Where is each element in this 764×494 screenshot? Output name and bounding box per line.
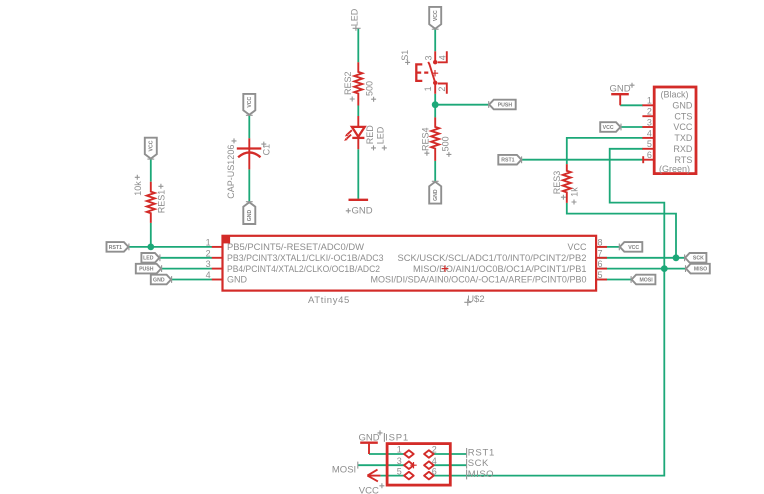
svg-text:ATtiny45: ATtiny45	[308, 295, 350, 306]
svg-text:VCC: VCC	[149, 140, 155, 151]
resistor RES3	[563, 164, 571, 203]
tag VCC at connector pin3	[600, 122, 621, 132]
svg-text:VCC: VCC	[673, 122, 693, 132]
IC pin 5 stub	[596, 279, 608, 281]
ISP pin 3	[404, 461, 414, 469]
connector pin 1 stub	[642, 104, 654, 106]
wire ISP pin2 to RST1 label	[434, 453, 467, 455]
svg-text:3: 3	[647, 117, 652, 127]
svg-text:500: 500	[365, 81, 375, 96]
tag GND at IC pin4	[151, 275, 172, 285]
wire LED label to RES2	[357, 28, 359, 62]
wire VCC arrow to ISP pin5	[380, 475, 404, 477]
svg-text:1k: 1k	[569, 187, 579, 197]
svg-text:7: 7	[598, 248, 603, 258]
svg-text:6: 6	[647, 150, 652, 160]
svg-text:2: 2	[432, 444, 437, 454]
tick at connector pin6	[642, 156, 644, 163]
svg-text:RST1: RST1	[468, 447, 495, 458]
wire VCC to C1	[248, 115, 250, 139]
svg-text:GND: GND	[359, 432, 380, 443]
supply VCC at ISP pin5	[359, 470, 385, 494]
svg-text:1: 1	[206, 237, 211, 247]
wire net RXD: connector pin5 down to MISO line and ISP pin6	[434, 149, 664, 476]
wire net SCK: IC pin7 to SCK tag	[599, 257, 685, 259]
svg-text:PB3/PCINT3/XTAL1/CLKI/-OC1B/AD: PB3/PCINT3/XTAL1/CLKI/-OC1B/ADC3	[227, 253, 384, 263]
svg-text:MOSI: MOSI	[332, 465, 356, 476]
svg-text:LED: LED	[375, 126, 385, 144]
svg-text:3: 3	[206, 259, 211, 269]
connector pin 2 stub	[642, 115, 654, 117]
wire PUSH tag to IC pin3	[161, 268, 212, 270]
supply VCC above C1	[243, 94, 255, 115]
svg-text:CTS: CTS	[674, 111, 692, 121]
wire ISP GND to ISP pin1	[369, 453, 404, 455]
wire S1 pin1 to push node	[434, 94, 436, 118]
svg-text:MISO: MISO	[468, 469, 494, 480]
IC pin 8 stub	[596, 246, 608, 248]
svg-text:LED: LED	[143, 256, 154, 262]
svg-text:S1: S1	[400, 50, 410, 61]
junction push node	[432, 101, 439, 108]
wire net RTS: RST1 tag to connector pin6	[521, 159, 643, 161]
wire IC pin5 to MOSI tag	[599, 279, 632, 281]
switch S1	[416, 51, 447, 94]
svg-text:VCC: VCC	[567, 242, 587, 252]
IC pin 4 stub	[212, 279, 223, 281]
svg-text:4: 4	[647, 128, 652, 138]
svg-text:RES3: RES3	[552, 171, 562, 195]
capacitor C1	[237, 138, 261, 169]
svg-text:SCK: SCK	[693, 256, 704, 262]
svg-text:ISP1: ISP1	[385, 432, 409, 443]
svg-text:GND: GND	[153, 277, 165, 283]
connector ISP1	[387, 444, 450, 486]
IC origin cross	[442, 265, 449, 272]
wire GND symbol to connector pin1	[620, 104, 643, 106]
supply VCC above RES1	[145, 138, 157, 159]
svg-text:500: 500	[440, 136, 450, 151]
svg-text:GND: GND	[610, 83, 631, 94]
wire VCC to S1 pin3	[434, 29, 436, 52]
wire RES1 to reset node	[150, 223, 152, 247]
connector pin 5 stub	[642, 148, 654, 150]
tag VCC at IC pin8	[619, 242, 642, 252]
wire IC pin8 to VCC tag	[599, 246, 620, 248]
connector pin 4 stub	[642, 137, 654, 139]
svg-text:RES4: RES4	[421, 127, 431, 151]
tag MOSI at IC pin5	[631, 275, 655, 285]
supply GND above connector	[610, 83, 635, 106]
supply VCC above S1	[429, 7, 441, 29]
svg-text:5: 5	[647, 139, 652, 149]
svg-text:6: 6	[432, 467, 437, 477]
ISP pin 1	[404, 450, 414, 458]
IC pin 2 stub	[212, 257, 223, 259]
wire VCC to RES1	[150, 158, 152, 181]
supply GND below LED1	[346, 200, 373, 217]
ISP pin 4	[424, 461, 434, 469]
svg-text:10k: 10k	[133, 181, 143, 196]
svg-text:4: 4	[437, 55, 447, 60]
wire RST1 tag to IC pin1	[128, 246, 212, 248]
connector pin 6 stub	[642, 159, 654, 161]
wire MOSI label to ISP pin3	[358, 464, 404, 466]
svg-text:RED: RED	[365, 125, 375, 145]
svg-text:VCC: VCC	[628, 245, 639, 251]
svg-text:VCC: VCC	[359, 486, 379, 494]
svg-text:3: 3	[397, 456, 402, 466]
junction reset node	[147, 244, 154, 251]
svg-text:5: 5	[397, 467, 402, 477]
ISP pin 2	[424, 450, 434, 458]
tag GND below RES4	[429, 181, 441, 203]
ISP pin 6	[424, 472, 434, 480]
wire net MISO: IC pin6 to MISO tag	[599, 268, 686, 270]
svg-text:4: 4	[206, 270, 211, 280]
IC pin 3 stub	[212, 268, 223, 270]
wire GND tag to IC pin4	[171, 279, 212, 281]
tag GND below C1	[243, 202, 255, 224]
tag LED at IC pin2	[141, 253, 160, 263]
svg-text:U$2: U$2	[467, 294, 484, 305]
ISP origin cross	[410, 462, 416, 468]
svg-text:PB4/PCINT4/XTAL2/CLKO/OC1B/ADC: PB4/PCINT4/XTAL2/CLKO/OC1B/ADC2	[227, 264, 380, 274]
svg-text:SCK/USCK/SCL/ADC1/T0/INT0/PCIN: SCK/USCK/SCL/ADC1/T0/INT0/PCINT2/PB2	[398, 253, 587, 263]
IC pin 1 stub	[212, 246, 223, 248]
svg-text:GND: GND	[227, 275, 248, 285]
svg-text:RES1: RES1	[156, 190, 166, 214]
svg-text:4: 4	[432, 456, 437, 466]
svg-text:6: 6	[598, 259, 603, 269]
junction TXD-SCK	[673, 254, 680, 261]
svg-text:2: 2	[647, 107, 652, 117]
svg-text:RES2: RES2	[343, 71, 353, 95]
svg-text:GND: GND	[672, 101, 693, 111]
wire RES2 to LED1	[357, 106, 359, 117]
resistor RES2	[354, 62, 362, 105]
wire C1 to GND tag	[248, 169, 250, 202]
svg-text:RST1: RST1	[109, 245, 122, 251]
svg-text:MISO/DO/AIN1/OC0B/OC1A/PCINT1/: MISO/DO/AIN1/OC0B/OC1A/PCINT1/PB1	[413, 264, 587, 274]
supply GND above ISP	[359, 430, 383, 454]
wire push node to PUSH tag	[435, 104, 489, 106]
wire VCC tag to connector pin3	[621, 126, 644, 128]
svg-text:RXD: RXD	[673, 144, 693, 154]
junction RXD-MISO	[661, 265, 668, 272]
wire ISP pin4 to SCK label	[434, 464, 467, 466]
svg-text:VCC: VCC	[247, 96, 253, 107]
IC pin 7 stub	[596, 257, 608, 259]
svg-text:TXD: TXD	[674, 133, 693, 143]
svg-text:1: 1	[397, 444, 402, 454]
connector pin 3 stub	[642, 126, 654, 128]
svg-text:C1: C1	[262, 144, 272, 156]
svg-text:PUSH: PUSH	[498, 102, 513, 108]
resistor RES4	[431, 117, 439, 160]
svg-text:2: 2	[437, 87, 447, 92]
diode LED1	[344, 116, 365, 149]
svg-text:VCC: VCC	[603, 125, 614, 131]
wire RES4 to GND tag	[434, 161, 436, 182]
connector (Black)/(Green)	[642, 87, 696, 174]
svg-text:1: 1	[423, 86, 433, 91]
wire LED1 to GND symbol	[357, 149, 359, 199]
svg-text:CAP-US1206: CAP-US1206	[226, 145, 236, 199]
tag MISO at IC pin6	[686, 264, 710, 274]
wire LED tag to IC pin2	[159, 257, 212, 259]
tag RST1 near RES3	[498, 155, 521, 165]
svg-text:GND: GND	[247, 209, 253, 221]
tag SCK at IC pin7	[685, 253, 707, 263]
svg-text:2: 2	[206, 248, 211, 258]
tag RST1 at IC pin1	[107, 242, 129, 252]
ISP pin 5	[404, 472, 414, 480]
svg-text:LED: LED	[350, 8, 360, 26]
svg-text:MOSI/DI/SDA/AIN0/OC0A/-OC1A/AR: MOSI/DI/SDA/AIN0/OC0A/-OC1A/AREF/PCINT0/…	[371, 275, 587, 285]
svg-text:SCK: SCK	[468, 458, 489, 469]
svg-text:MISO: MISO	[694, 267, 707, 273]
tag PUSH right of S1	[489, 100, 516, 110]
svg-text:(Black): (Black)	[660, 89, 688, 99]
wire net TXD: RES3 to SCK junction	[567, 203, 676, 258]
svg-text:VCC: VCC	[433, 10, 439, 21]
svg-text:8: 8	[598, 237, 603, 247]
svg-text:GND: GND	[352, 205, 373, 216]
tag PUSH at IC pin3	[136, 264, 162, 274]
svg-text:MOSI: MOSI	[639, 277, 653, 283]
IC pin 6 stub	[596, 268, 608, 270]
svg-text:PB5/PCINT5/-RESET/ADC0/DW: PB5/PCINT5/-RESET/ADC0/DW	[227, 242, 365, 252]
svg-text:GND: GND	[433, 189, 439, 201]
resistor RES1	[147, 182, 155, 223]
svg-text:5: 5	[598, 270, 603, 280]
svg-text:3: 3	[423, 55, 433, 60]
wire net TXD: connector pin4 to RES3	[567, 138, 643, 164]
IC U$2 ATtiny45	[212, 235, 607, 291]
svg-text:PUSH: PUSH	[139, 267, 154, 273]
svg-text:RST1: RST1	[501, 158, 514, 164]
svg-text:(Green): (Green)	[659, 164, 690, 174]
svg-text:1: 1	[647, 96, 652, 106]
